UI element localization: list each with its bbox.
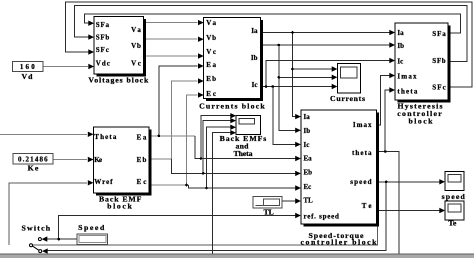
- svg-text:Vb: Vb: [131, 42, 141, 50]
- svg-text:SFa: SFa: [96, 21, 110, 29]
- svg-text:SFb: SFb: [96, 34, 110, 42]
- svg-text:ref. speed: ref. speed: [304, 212, 339, 220]
- svg-text:Ec: Ec: [304, 183, 312, 191]
- svg-text:Ia: Ia: [251, 27, 258, 35]
- svg-text:Ke: Ke: [94, 156, 102, 164]
- svg-text:SFb: SFb: [432, 57, 445, 65]
- svg-text:Theta: Theta: [94, 133, 117, 141]
- svg-text:Speed: Speed: [78, 223, 105, 232]
- svg-text:Vdc: Vdc: [96, 60, 110, 68]
- svg-text:Ia: Ia: [397, 29, 404, 37]
- svg-text:Eb: Eb: [137, 156, 147, 164]
- svg-text:theta: theta: [397, 88, 418, 96]
- svg-text:theta: theta: [352, 149, 372, 157]
- svg-text:Ib: Ib: [251, 54, 258, 62]
- svg-text:TL: TL: [264, 208, 274, 217]
- svg-text:Currents block: Currents block: [199, 101, 265, 110]
- svg-text:Ic: Ic: [397, 58, 403, 66]
- svg-text:Imax: Imax: [353, 121, 372, 129]
- svg-text:Currents: Currents: [330, 94, 365, 103]
- svg-text:TL: TL: [304, 197, 314, 205]
- svg-text:Vc: Vc: [131, 60, 141, 68]
- svg-text:Theta: Theta: [234, 149, 253, 158]
- svg-text:Vc: Vc: [206, 48, 216, 56]
- svg-text:Ke: Ke: [28, 164, 39, 173]
- svg-text:SFc: SFc: [432, 84, 445, 92]
- svg-text:SFc: SFc: [96, 46, 109, 54]
- svg-text:block: block: [409, 117, 434, 126]
- svg-text:Ib: Ib: [304, 127, 311, 135]
- svg-text:Vd: Vd: [22, 72, 34, 81]
- svg-text:Ib: Ib: [397, 42, 404, 50]
- svg-text:Ic: Ic: [304, 141, 310, 149]
- svg-text:Te: Te: [448, 219, 457, 228]
- svg-text:0.21486: 0.21486: [18, 156, 48, 164]
- svg-text:Ia: Ia: [304, 113, 311, 121]
- svg-text:speed: speed: [442, 192, 466, 201]
- svg-text:speed: speed: [350, 178, 371, 186]
- svg-text:SFa: SFa: [432, 30, 446, 38]
- svg-text:Wref: Wref: [94, 178, 113, 186]
- svg-text:Vb: Vb: [206, 34, 216, 42]
- svg-text:Switch: Switch: [22, 224, 51, 233]
- svg-text:block: block: [107, 202, 132, 211]
- svg-text:Eb: Eb: [304, 169, 313, 177]
- svg-text:Ic: Ic: [252, 81, 258, 89]
- svg-text:Eb: Eb: [206, 75, 216, 83]
- svg-text:Ea: Ea: [304, 154, 313, 162]
- svg-text:160: 160: [20, 63, 35, 71]
- svg-text:Voltages block: Voltages block: [88, 76, 149, 85]
